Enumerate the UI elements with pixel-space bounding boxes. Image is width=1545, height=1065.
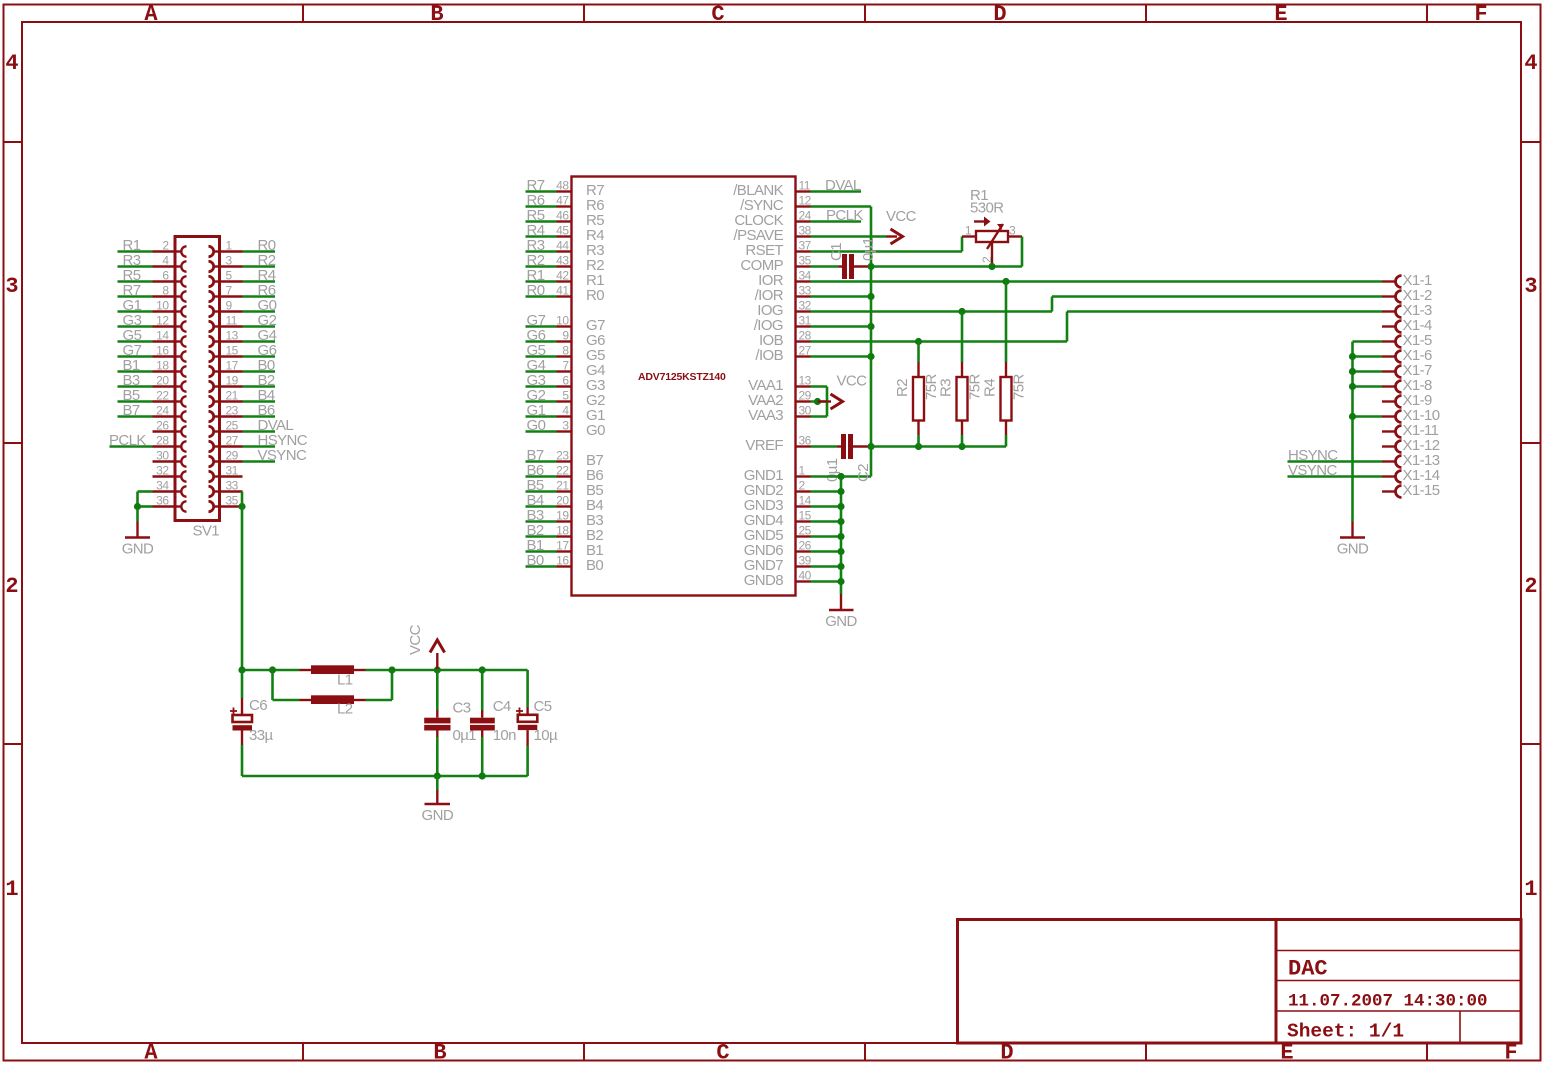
wire R2 top connection [917,342,920,363]
connector pin X1-8 [1382,377,1432,394]
svg-text:11.07.2007 14:30:00: 11.07.2007 14:30:00 [1288,992,1488,1012]
junction IOB at R2 [915,338,922,345]
R1 pin number 2 [980,256,994,263]
svg-text:VCC: VCC [837,373,868,390]
svg-text:33µ: 33µ [249,727,273,744]
svg-text:2: 2 [5,574,18,599]
ground symbol GND at SV1 [122,522,154,558]
svg-text:5: 5 [562,389,569,403]
svg-text:2: 2 [980,256,994,263]
svg-text:26: 26 [156,419,169,433]
svg-text:R4: R4 [982,379,999,397]
svg-text:31: 31 [799,314,812,328]
svg-text:C2: C2 [855,464,872,482]
net VSYNC wire to X1-14 [1288,475,1383,478]
svg-text:13: 13 [799,374,812,388]
svg-text:33: 33 [226,479,239,493]
junction rail at VCC arrow [434,666,441,673]
svg-text:12: 12 [156,314,169,328]
IC U1 value label ADV7125KSTZ140 [638,371,726,383]
svg-text:C5: C5 [534,698,552,715]
title block divider [1275,920,1278,1044]
svg-text:21: 21 [226,389,239,403]
svg-text:8: 8 [562,344,569,358]
capacitor C1 value 0u1 [860,237,877,261]
C6 name label [249,697,267,714]
svg-text:GND: GND [825,613,857,630]
connector pin X1-13 [1382,452,1440,469]
R1 adjust arrow [974,217,991,227]
wire R3 bottom connection [961,435,964,447]
junction rail at R2 [915,443,922,450]
svg-text:25: 25 [226,419,239,433]
svg-text:29: 29 [226,449,239,463]
svg-text:GND: GND [1337,541,1369,558]
junctions on IC ground column [837,473,844,585]
svg-text:30: 30 [156,449,169,463]
IC right pin names inside [733,182,784,589]
capacitor C5 electrolytic [516,670,537,776]
svg-text:21: 21 [556,479,569,493]
svg-text:36: 36 [156,494,169,508]
svg-text:X1-15: X1-15 [1403,482,1440,499]
svg-text:38: 38 [799,224,812,238]
SV1 right net wires [243,252,276,462]
svg-text:C1: C1 [828,243,845,261]
wire /IOB stub [811,355,872,358]
connector pin X1-2 [1382,287,1432,304]
svg-text:27: 27 [799,344,812,358]
junction rail at L2 right [388,666,395,673]
svg-text:VAA3: VAA3 [748,407,783,424]
svg-text:17: 17 [556,539,569,553]
svg-text:32: 32 [156,464,169,478]
svg-text:DVAL: DVAL [825,177,861,194]
svg-text:6: 6 [162,269,169,283]
svg-text:25: 25 [799,524,812,538]
svg-text:R3: R3 [938,379,955,397]
L2 name label [337,701,353,718]
svg-text:35: 35 [226,494,239,508]
frame column labels A-F top [144,2,1487,27]
wire VCC top rail [242,669,528,672]
svg-text:VSYNC: VSYNC [258,447,307,464]
svg-text:22: 22 [556,464,569,478]
svg-text:PCLK: PCLK [109,432,146,449]
R1 pin number 1 [965,224,972,238]
title text DAC [1288,957,1328,982]
svg-text:C6: C6 [249,697,267,714]
frame column tick marks [303,5,1427,1061]
junction bottom rail at C4 [479,772,486,779]
R1 name label [970,187,988,204]
capacitor C1 on COMP [811,254,872,279]
wire RSET to R1 pin1 [811,237,963,252]
svg-text:R0: R0 [586,287,604,304]
trimmer resistor R1 body [976,231,1008,242]
svg-text:20: 20 [556,494,569,508]
IC U1 ADV7125 body [572,177,796,596]
capacitor C1 name label [828,243,845,261]
net label PCLK [826,207,863,224]
svg-text:19: 19 [226,374,239,388]
wire L2 branch [273,670,393,700]
capacitor C2 on VREF [811,434,872,459]
junction IOR at R4 [1002,278,1009,285]
resistor R3 body [957,362,968,435]
wire SV1 pin35 down to filter [241,507,244,671]
svg-text:29: 29 [799,389,812,403]
R4 name label [982,379,999,397]
wire R4 top connection [1005,282,1008,363]
R4 value 75R [1011,374,1028,400]
svg-text:L2: L2 [337,701,353,718]
wire IOR net to X1-1 [811,280,1383,283]
svg-text:14: 14 [799,494,812,508]
connector pin X1-14 [1382,467,1440,484]
connector pin X1-11 [1382,422,1439,439]
R1 pin 3 stub [1008,235,1022,237]
net HSYNC wire to X1-13 [1288,460,1383,463]
SV1 left net wires [110,252,153,447]
IC left pin names inside [586,182,605,574]
svg-text:18: 18 [556,524,569,538]
R1 pin number 3 [1009,224,1016,238]
L1 name label [337,672,353,689]
svg-text:3: 3 [562,419,569,433]
svg-text:A: A [144,1041,158,1065]
svg-text:40: 40 [799,569,812,583]
connector pin X1-15 [1382,482,1440,499]
wire R3 top connection [961,312,964,363]
junction VREF node [867,443,874,450]
R1 wiper arm [987,224,1003,267]
wire COMP to R1 wiper [871,265,1022,268]
svg-text:9: 9 [562,329,569,343]
junction bottom rail at C3 [434,772,441,779]
svg-text:ADV7125KSTZ140: ADV7125KSTZ140 [638,371,726,383]
svg-text:L1: L1 [337,672,353,689]
supply symbol VCC at VAA [818,394,843,409]
wire resistor bottom rail [871,445,1006,448]
svg-text:20: 20 [156,374,169,388]
junction IOG at R3 [958,308,965,315]
svg-text:R0: R0 [527,282,545,299]
SV1 left pin stubs [153,252,176,507]
svg-text:47: 47 [556,194,569,208]
connector pin X1-5 [1382,332,1432,349]
svg-text:4: 4 [162,254,169,268]
svg-text:45: 45 [556,224,569,238]
connector SV1 label [193,523,220,540]
ground symbol GND at filter [422,776,454,824]
svg-text:1: 1 [799,464,806,478]
svg-text:17: 17 [226,359,239,373]
svg-text:10µ: 10µ [534,727,558,744]
R1 value 530R [970,200,1004,217]
svg-text:VCC: VCC [886,208,917,225]
svg-text:39: 39 [799,554,812,568]
title block row lines [1276,951,1521,1044]
svg-text:26: 26 [799,539,812,553]
IC ground column wires [811,477,842,595]
wire SV1 pin36 to ground [138,507,153,522]
svg-text:16: 16 [556,554,569,568]
wires VAA1-VAA3 to VCC [811,387,828,417]
svg-text:3: 3 [1524,274,1537,299]
svg-text:3: 3 [1009,224,1016,238]
svg-text:9: 9 [226,299,233,313]
junction /IOB at ground column [867,353,874,360]
svg-text:B0: B0 [586,557,603,574]
svg-text:42: 42 [556,269,569,283]
title date text [1288,992,1488,1012]
net DVAL wire at /BLANK [811,190,862,193]
svg-text:31: 31 [226,464,239,478]
ground symbol GND below IC [825,594,857,630]
svg-text:30: 30 [799,404,812,418]
svg-text:B: B [433,1041,446,1065]
svg-text:15: 15 [226,344,239,358]
svg-text:24: 24 [156,404,169,418]
svg-text:28: 28 [156,434,169,448]
junction COMP net at ground column [867,263,874,270]
svg-text:1: 1 [226,239,233,253]
frame row labels 4-1 left [5,51,18,902]
svg-text:6: 6 [562,374,569,388]
svg-text:11: 11 [799,179,811,193]
svg-text:35: 35 [799,254,812,268]
IC left net labels [527,177,546,569]
wire filter bottom rail [242,775,528,778]
svg-text:F: F [1474,2,1487,27]
svg-text:10: 10 [556,314,569,328]
svg-text:C3: C3 [453,700,471,717]
net label VSYNC [1288,462,1337,479]
svg-text:7: 7 [562,359,569,373]
inductor L1 [300,665,366,674]
resistor R4 body [1001,362,1012,435]
C6 value 33u [249,727,273,744]
svg-text:R2: R2 [894,379,911,397]
R3 name label [938,379,955,397]
svg-text:DAC: DAC [1288,957,1328,982]
svg-text:3: 3 [5,274,18,299]
svg-text:32: 32 [799,299,812,313]
title block outline [958,920,1522,1044]
svg-text:1: 1 [1524,877,1537,902]
label VCC at filter [407,624,424,655]
wire /IOG stub [811,325,872,328]
svg-text:33: 33 [799,284,812,298]
IC left input net wires [526,192,557,567]
svg-text:G0: G0 [527,417,546,434]
svg-text:PCLK: PCLK [826,207,863,224]
svg-text:10: 10 [156,299,169,313]
junction at SV1 pin35 [238,503,245,510]
svg-text:B7: B7 [123,402,140,419]
svg-text:46: 46 [556,209,569,223]
svg-text:1: 1 [965,224,972,238]
R2 value 75R [923,374,940,400]
svg-text:36: 36 [799,434,812,448]
SV1 left net labels [109,237,146,449]
capacitor C3 [424,670,450,776]
wire IOG net to X1-2 [811,297,1383,312]
connector SV1 body [175,237,220,521]
label VCC at /PSAVE [886,208,917,225]
svg-text:7: 7 [226,284,233,298]
svg-text:C4: C4 [493,698,511,715]
svg-text:23: 23 [556,449,569,463]
capacitor C2 name label [855,464,872,482]
capacitor C4 [470,670,495,776]
svg-text:0µ1: 0µ1 [860,237,877,261]
junction rail at R3 [958,443,965,450]
SV1 right pin numbers [226,239,239,508]
svg-text:D: D [993,2,1006,27]
svg-text:GND: GND [122,541,154,558]
net label DVAL [825,177,861,194]
svg-text:4: 4 [5,51,18,76]
wire X1 ground bus [1353,342,1383,522]
svg-text:VREF: VREF [745,437,783,454]
IC left pin numbers [556,179,569,568]
capacitor C2 value 0u1 [824,458,841,482]
resistor R2 body [913,362,924,435]
title sheet text [1287,1021,1404,1043]
svg-text:41: 41 [556,284,569,298]
R3 value 75R [967,374,984,400]
wire /SYNC to ground column [811,207,872,477]
C4 name label [493,698,511,715]
svg-text:530R: 530R [970,200,1004,217]
wire SV1 pin33 to pin35 node [241,492,244,507]
connector pin X1-12 [1382,437,1440,454]
svg-text:14: 14 [156,329,169,343]
IC right pin stubs [796,192,811,582]
svg-text:/IOB: /IOB [755,347,783,364]
inductor L2 [300,695,366,704]
junction rail at L2 left [269,666,276,673]
net PCLK wire at CLOCK [811,220,862,223]
wire R4 bottom connection [1005,435,1008,447]
label VCC at VAA [837,373,868,390]
svg-text:GND: GND [422,807,454,824]
C5 value 10u [534,727,558,744]
svg-text:C: C [716,1041,729,1065]
svg-text:48: 48 [556,179,569,193]
IC right pin numbers [799,179,812,583]
C4 value 10n [493,727,516,744]
svg-text:A: A [144,2,158,27]
connector pin X1-10 [1382,407,1440,424]
C3 name label [453,700,471,717]
svg-text:5: 5 [226,269,233,283]
connector pin X1-1 [1382,272,1432,289]
svg-text:28: 28 [799,329,812,343]
svg-text:2: 2 [1524,574,1537,599]
svg-text:2: 2 [799,479,806,493]
wire IOB net to X1-3 [811,312,1383,342]
connector pin X1-9 [1382,392,1432,409]
wire R1 pin3 to COMP net [1021,237,1024,267]
svg-text:B: B [430,2,443,27]
svg-text:B0: B0 [527,552,544,569]
IC left pin stubs [557,192,572,567]
capacitor C6 electrolytic [230,670,252,776]
ground symbol GND at X1 [1337,522,1369,558]
svg-text:4: 4 [1524,51,1537,76]
svg-text:24: 24 [799,209,812,223]
svg-text:34: 34 [156,479,169,493]
connector pin X1-4 [1382,317,1432,334]
wire SV1 pin34 to ground [138,492,153,507]
svg-text:1: 1 [5,877,18,902]
svg-text:11: 11 [226,314,238,328]
svg-text:12: 12 [799,194,812,208]
svg-text:4: 4 [562,404,569,418]
svg-text:18: 18 [156,359,169,373]
supply symbol VCC at /PSAVE [886,229,903,244]
connector pin X1-7 [1382,362,1432,379]
frame row tick marks [4,142,1541,744]
junction /IOR at ground column [867,293,874,300]
connector pin X1-6 [1382,347,1432,364]
supply symbol VCC at filter [430,640,445,669]
svg-text:SV1: SV1 [193,523,220,540]
junction VAA2 node [814,398,821,405]
svg-text:16: 16 [156,344,169,358]
wire /PSAVE to VCC [811,235,887,238]
svg-text:27: 27 [226,434,239,448]
svg-text:8: 8 [162,284,169,298]
svg-text:19: 19 [556,509,569,523]
net label HSYNC [1288,447,1338,464]
svg-text:VCC: VCC [407,624,424,655]
svg-text:44: 44 [556,239,569,253]
junction rail at C4 [479,666,486,673]
R1 pin 1 stub [962,235,976,237]
connector pin X1-3 [1382,302,1432,319]
SV1 pin socket arcs [175,246,220,511]
wire /IOR stub [811,295,872,298]
SV1 right net labels [258,237,308,464]
svg-text:13: 13 [226,329,239,343]
frame row labels 4-1 right [1524,51,1537,902]
svg-text:Sheet: 1/1: Sheet: 1/1 [1287,1021,1404,1043]
C3 value 0u1 [453,727,477,744]
svg-text:GND8: GND8 [744,572,784,589]
svg-text:G0: G0 [586,422,605,439]
junctions on X1 ground bus [1349,353,1356,420]
R2 name label [894,379,911,397]
junction /IOG at ground column [867,323,874,330]
SV1 left pin numbers [156,239,169,508]
svg-text:3: 3 [226,254,233,268]
svg-text:34: 34 [799,269,812,283]
svg-text:37: 37 [799,239,812,253]
SV1 right pin stubs [220,252,243,507]
svg-text:43: 43 [556,254,569,268]
svg-text:22: 22 [156,389,169,403]
svg-text:VSYNC: VSYNC [1288,462,1337,479]
svg-text:15: 15 [799,509,812,523]
frame column labels A-F bottom [144,1041,1517,1065]
C5 name label [534,698,552,715]
junction rail at C6 [238,666,245,673]
svg-text:10n: 10n [493,727,516,744]
